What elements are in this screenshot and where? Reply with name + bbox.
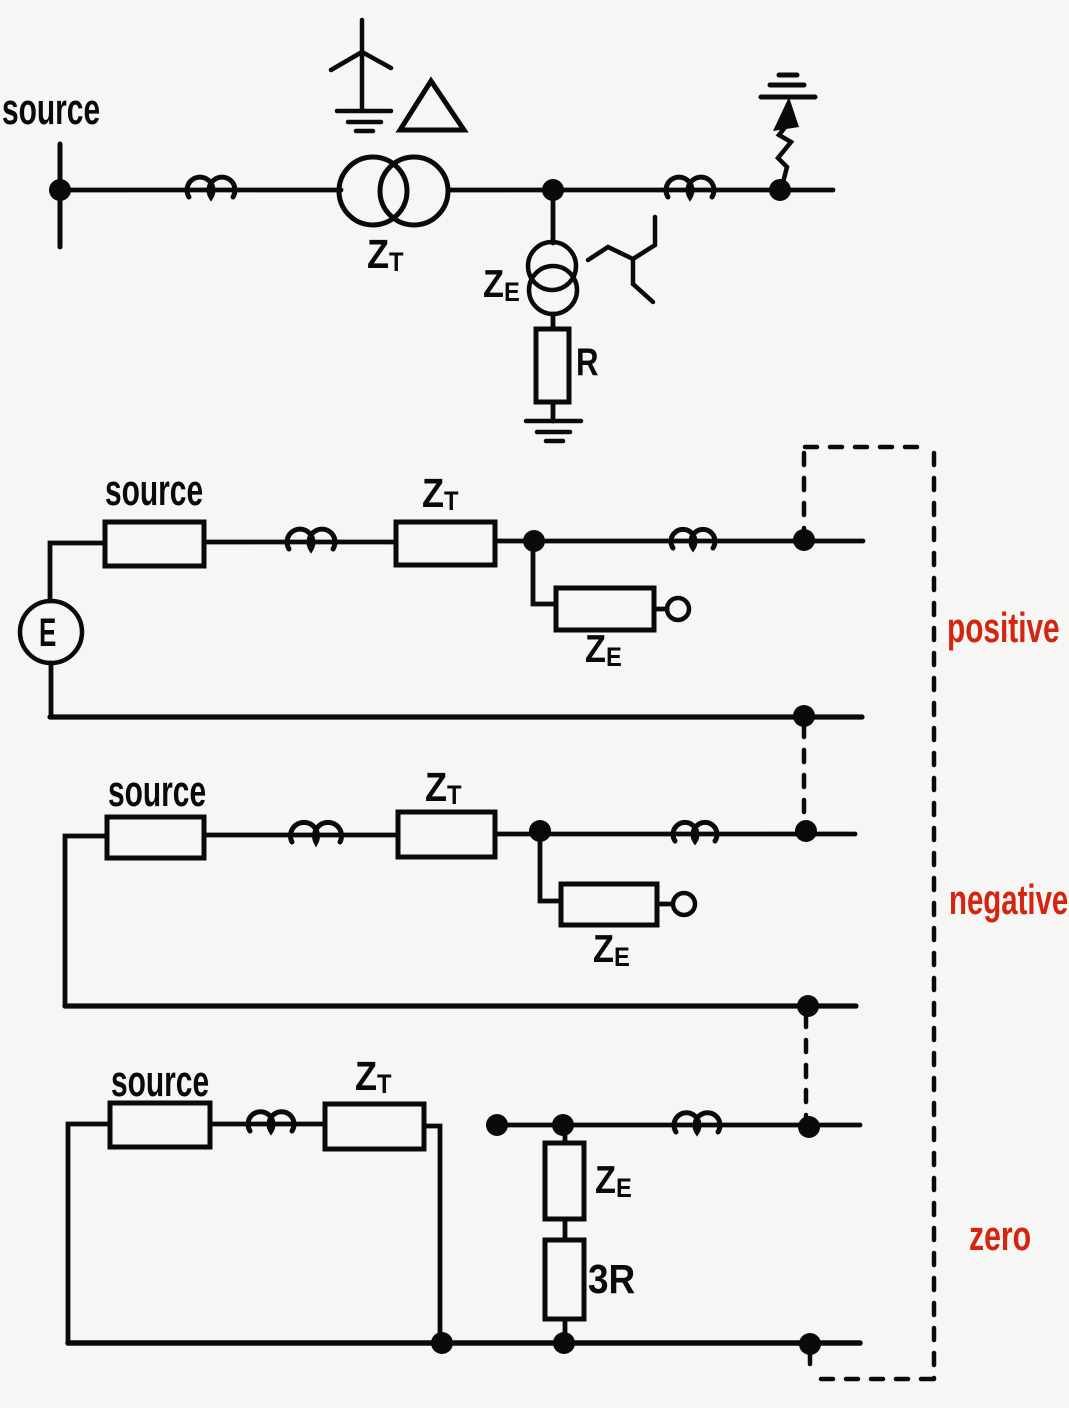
inductor L8 bbox=[674, 1113, 720, 1132]
svg-text:ZT: ZT bbox=[422, 471, 459, 517]
EMF source E bbox=[20, 601, 82, 663]
wire: zero sequence top bus bbox=[497, 1123, 860, 1128]
label: ZE (zero) bbox=[595, 1158, 632, 1203]
label: source bbox=[2, 84, 100, 133]
node: fault point (zero) bbox=[798, 1116, 820, 1138]
impedance box ZE (negative) bbox=[561, 884, 657, 925]
node: bottom rail (negative) bbox=[797, 995, 819, 1017]
dashed wire: into positive fault node bbox=[802, 453, 807, 534]
svg-text:ZT: ZT bbox=[355, 1054, 392, 1100]
impedance box ZT (zero) bbox=[325, 1104, 424, 1149]
source impedance box (positive) bbox=[105, 522, 204, 566]
ground: fault earth bbox=[761, 75, 815, 97]
label: source (zero) bbox=[111, 1056, 209, 1105]
wire: ZE box to open terminal (negative) bbox=[657, 902, 672, 907]
node: bottom rail (positive) bbox=[793, 705, 815, 727]
node: fault point bbox=[769, 179, 791, 201]
label: 3R bbox=[588, 1257, 635, 1302]
node: open end of zero bus bbox=[486, 1114, 508, 1136]
label: positive bbox=[947, 604, 1060, 651]
label: ZT (zero) bbox=[355, 1054, 392, 1100]
node: fault point (positive) bbox=[793, 529, 815, 551]
node: bottom rail (zero) bbox=[799, 1333, 821, 1355]
label: negative bbox=[949, 876, 1068, 924]
wire: bottom rail (negative) bbox=[65, 1003, 856, 1008]
inductor L2 (line reactance) bbox=[666, 177, 714, 197]
wire: bottom rail (zero) bbox=[68, 1340, 860, 1346]
label: source (positive) bbox=[105, 465, 203, 514]
svg-text:ZE: ZE bbox=[483, 262, 520, 307]
svg-text:E: E bbox=[39, 610, 56, 655]
dashed wire: negative bottom to zero top bbox=[804, 1015, 809, 1120]
ground: transformer star point bbox=[337, 111, 391, 131]
inductor L5 bbox=[291, 822, 342, 842]
wire: source box to ZT (zero) bbox=[210, 1122, 325, 1127]
svg-text:ZT: ZT bbox=[425, 765, 462, 811]
node: ZE tap (negative) bbox=[529, 820, 551, 842]
node: ZE tap (zero) bbox=[552, 1114, 574, 1136]
wire: source box to bottom rail (zero) bbox=[68, 1124, 110, 1343]
inductor L1 (line reactance) bbox=[187, 177, 235, 197]
label: source (negative) bbox=[108, 766, 206, 815]
wire: ZT right side down to bottom rail bbox=[424, 1126, 440, 1343]
ground: neutral earthing bbox=[526, 421, 581, 441]
svg-text:zero: zero bbox=[969, 1212, 1031, 1259]
label: ZE (positive) bbox=[585, 627, 622, 672]
wire: ZE to resistor R bbox=[551, 314, 556, 329]
label: ZE (negative) bbox=[593, 927, 630, 972]
impedance box ZE (positive) bbox=[556, 588, 654, 630]
svg-text:source: source bbox=[105, 465, 203, 514]
node: fault point (negative) bbox=[795, 820, 817, 842]
resistor box 3R bbox=[545, 1240, 584, 1319]
node: ZT leg on bottom rail bbox=[431, 1332, 453, 1354]
svg-text:source: source bbox=[2, 84, 100, 133]
open terminal (negative) bbox=[673, 893, 695, 915]
wire: E to bottom rail (positive) bbox=[49, 663, 54, 717]
svg-text:negative: negative bbox=[949, 876, 1068, 924]
wire: source box to ZT (positive) bbox=[204, 540, 396, 545]
dashed wire: bottom link bbox=[821, 1377, 937, 1382]
source impedance box (negative) bbox=[107, 817, 204, 858]
wire: ZE to 3R bbox=[563, 1219, 568, 1240]
wire: source bus to transformer bbox=[60, 188, 341, 193]
impedance box ZT (negative) bbox=[398, 812, 495, 857]
node: ZE tap (positive) bbox=[523, 530, 545, 552]
svg-text:ZE: ZE bbox=[585, 627, 622, 672]
wire: source box to bottom rail (negative) bbox=[65, 836, 107, 1006]
wire: source box to E bbox=[50, 543, 105, 601]
label: ZT bbox=[367, 232, 404, 278]
source impedance box (zero) bbox=[110, 1103, 210, 1147]
label: R bbox=[576, 341, 599, 384]
fault: lightning bolt to earth bbox=[778, 126, 791, 190]
impedance box ZT (positive) bbox=[396, 522, 495, 565]
wire: transformer to fault bus bbox=[448, 188, 833, 193]
svg-text:ZE: ZE bbox=[595, 1158, 632, 1203]
resistor R bbox=[536, 329, 569, 402]
label: ZT (negative) bbox=[425, 765, 462, 811]
zigzag winding symbol bbox=[588, 217, 655, 302]
dashed wire: right return bbox=[932, 453, 937, 1379]
wire: resistor to ground bbox=[551, 402, 556, 421]
wire: tap down to ZE box (positive) bbox=[533, 547, 556, 604]
wire: source box to ZT (negative) bbox=[204, 833, 398, 838]
wire: ZT to fault bus (negative) bbox=[495, 832, 855, 837]
wire: tap to earthing transformer bbox=[551, 196, 556, 243]
svg-text:ZE: ZE bbox=[593, 927, 630, 972]
source bus bar bbox=[58, 144, 63, 247]
wire: tap to ZE box (zero) bbox=[563, 1125, 568, 1143]
node: 3R leg on bottom rail bbox=[553, 1332, 575, 1354]
transformer T1 (two overlapping circles) bbox=[339, 157, 407, 225]
label: zero bbox=[969, 1212, 1031, 1259]
wire: ZT to fault bus (positive) bbox=[495, 539, 863, 544]
node: earthing transformer tap bbox=[542, 179, 564, 201]
inductor L7 bbox=[248, 1112, 294, 1131]
svg-text:positive: positive bbox=[947, 604, 1060, 651]
dashed wire: zero bottom stub bbox=[808, 1352, 813, 1374]
inductor L3 bbox=[287, 529, 335, 549]
node: source bus junction bbox=[49, 179, 71, 201]
impedance box ZE (zero, vertical) bbox=[545, 1143, 584, 1219]
dashed wire: top link bbox=[805, 445, 930, 450]
wire: ZE box to open terminal bbox=[654, 607, 667, 612]
svg-text:3R: 3R bbox=[588, 1257, 635, 1302]
delta winding symbol bbox=[400, 81, 464, 130]
label: ZT (positive) bbox=[422, 471, 459, 517]
wye (star) winding symbol with earth bbox=[331, 20, 391, 111]
inductor L4 bbox=[671, 529, 715, 548]
label: ZE bbox=[483, 262, 520, 307]
open terminal (positive) bbox=[667, 598, 689, 620]
inductor L6 bbox=[673, 822, 717, 841]
svg-text:ZT: ZT bbox=[367, 232, 404, 278]
wire: bottom rail (positive) bbox=[50, 714, 862, 719]
svg-text:source: source bbox=[108, 766, 206, 815]
wire: tap down to ZE box (negative) bbox=[540, 837, 561, 901]
earthing transformer ZE (two overlapping circles) bbox=[528, 242, 576, 290]
svg-text:source: source bbox=[111, 1056, 209, 1105]
wire: 3R to bottom rail bbox=[563, 1319, 568, 1343]
dashed wire: positive bottom to negative top bbox=[802, 725, 807, 825]
svg-text:R: R bbox=[576, 341, 599, 384]
